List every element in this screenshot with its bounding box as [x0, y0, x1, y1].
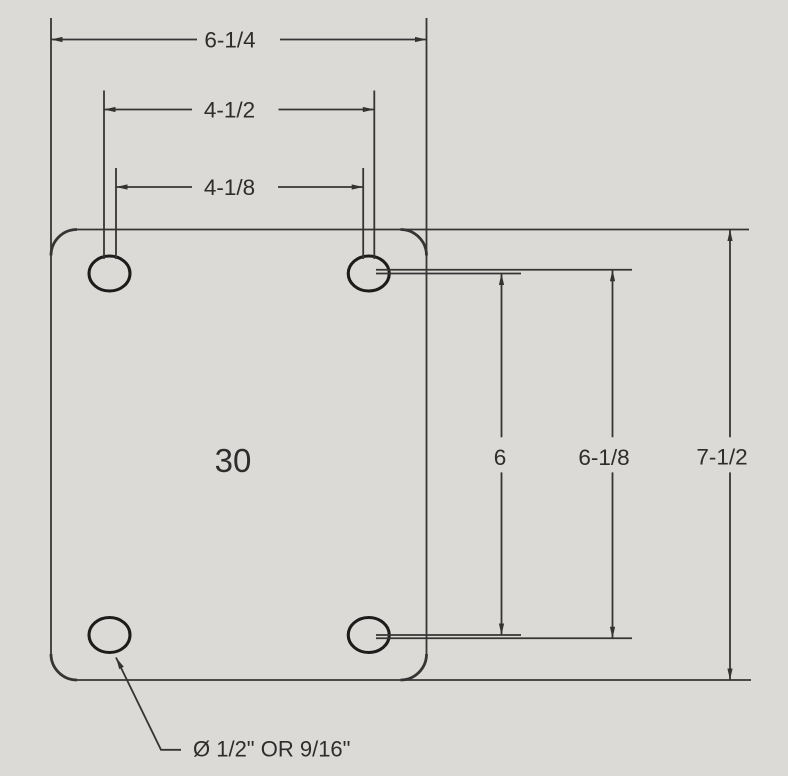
dimension 4-1/2 line segments [104, 109, 192, 111]
svg-text:30: 30 [215, 442, 252, 479]
dimension 4-1/8 line segments [116, 186, 192, 188]
arrowhead 6-1/4 left [51, 37, 63, 42]
plate corner arc bottom-left [51, 654, 77, 680]
svg-text:Ø 1/2" OR 9/16": Ø 1/2" OR 9/16" [193, 737, 350, 762]
dimension 4-1/8 extension line left [115, 168, 117, 259]
dimension 6-1/8 extension line top [376, 269, 632, 271]
bolt hole top-left [89, 256, 130, 291]
svg-text:6-1/8: 6-1/8 [578, 445, 629, 470]
arrowhead 6-1/8 top [610, 270, 615, 282]
arrowhead 6 top [499, 274, 504, 286]
arrowhead 7-1/2 bottom [727, 669, 732, 681]
plate corner arc top-left [51, 230, 77, 256]
arrowhead 4-1/2 right [363, 107, 375, 112]
arrowhead 4-1/2 left [104, 107, 116, 112]
svg-text:4-1/2: 4-1/2 [204, 98, 255, 123]
arrowhead 4-1/8 right [352, 184, 364, 189]
arrowhead 6-1/8 bottom [610, 627, 615, 639]
dimension 4-1/8 extension line right [362, 168, 364, 259]
svg-text:6-1/4: 6-1/4 [204, 28, 255, 53]
dimension 6 line segments [501, 274, 503, 438]
arrowhead 4-1/8 left [116, 184, 128, 189]
dimension 6 extension line bottom (hole centerline) [376, 634, 521, 636]
dimension 4-1/2 extension line right [373, 91, 375, 260]
svg-text:6: 6 [494, 445, 507, 470]
dimension 6-1/8 extension line bottom [376, 637, 632, 639]
plate left edge / extension line [50, 18, 52, 654]
plate corner arc bottom-right [401, 654, 427, 680]
bolt hole bottom-right [348, 618, 389, 653]
dimension 6-1/4 line segments [51, 39, 197, 41]
plate right edge / extension line [426, 18, 428, 655]
arrowhead 7-1/2 top [727, 230, 732, 242]
svg-text:7-1/2: 7-1/2 [696, 445, 747, 470]
dimension 7-1/2 line segments [729, 230, 731, 438]
dimension 4-1/2 extension line left [103, 91, 105, 260]
plate corner arc top-right [401, 230, 427, 256]
svg-text:4-1/8: 4-1/8 [204, 175, 255, 200]
arrowhead leader [116, 658, 124, 670]
plate top edge / extension line [77, 229, 749, 231]
bolt hole bottom-left [89, 618, 130, 653]
dimension 6-1/8 line segments [612, 270, 614, 438]
dimension 6 extension line top (hole centerline) [376, 273, 521, 275]
leader line to hole diameter note [116, 658, 181, 750]
arrowhead 6 bottom [499, 624, 504, 636]
plate bottom edge / extension line [77, 679, 751, 681]
bolt hole top-right [348, 256, 389, 291]
arrowhead 6-1/4 right [415, 37, 427, 42]
